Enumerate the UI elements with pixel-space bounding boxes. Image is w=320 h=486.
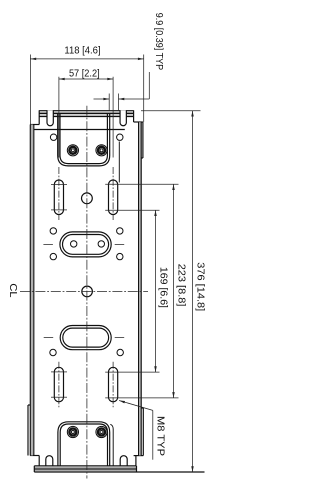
svg-text:M8 TYP: M8 TYP	[154, 416, 165, 456]
svg-text:9.9 [0.39] TYP: 9.9 [0.39] TYP	[153, 13, 164, 71]
svg-text:376 [14.8]: 376 [14.8]	[194, 262, 205, 311]
svg-text:CL: CL	[7, 283, 18, 298]
svg-text:118 [4.6]: 118 [4.6]	[64, 45, 100, 56]
svg-text:57 [2.2]: 57 [2.2]	[69, 69, 100, 80]
svg-text:169 [6.6]: 169 [6.6]	[158, 267, 169, 308]
svg-text:223 [8.8]: 223 [8.8]	[176, 264, 187, 307]
